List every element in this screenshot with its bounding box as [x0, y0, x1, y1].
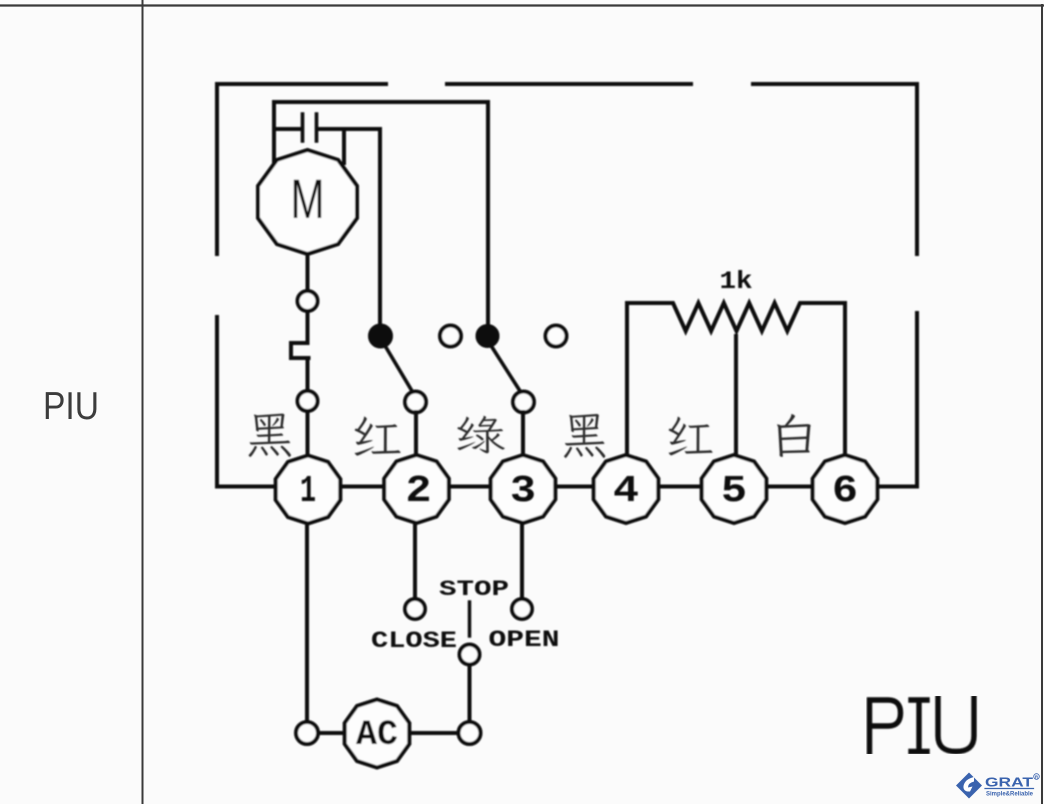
wire: terminal 3 down lead — [520, 523, 524, 598]
spare contact circle right — [546, 326, 567, 347]
terminal 5 — [702, 455, 767, 523]
svg-text:GRAT: GRAT — [985, 775, 1033, 790]
wire: motor bottom lead — [306, 254, 310, 291]
wire: motor loop top — [274, 102, 488, 326]
switch S2 lever — [490, 344, 520, 391]
wire: terminal 2 down lead — [413, 523, 417, 598]
dashed enclosure left edge — [215, 84, 219, 487]
selector lever (STOP position) — [468, 602, 471, 636]
GRAT logo diamond — [956, 773, 1039, 799]
motor M — [258, 150, 357, 254]
selector common circle E — [460, 645, 480, 665]
table right border — [1041, 5, 1043, 804]
svg-text:AC: AC — [356, 715, 398, 755]
resistor R1 1k with leads — [627, 303, 845, 331]
terminal circle A (motor side) — [298, 291, 318, 311]
registered mark — [1034, 774, 1040, 780]
switch S1 contact circle — [405, 392, 426, 413]
table top border — [0, 4, 1044, 6]
table column divider — [142, 0, 144, 804]
terminal 3 — [491, 455, 556, 523]
svg-text:OPEN: OPEN — [489, 627, 560, 653]
dashed enclosure top edge — [217, 82, 917, 86]
svg-text:STOP: STOP — [439, 577, 509, 602]
CLOSE contact circle — [405, 599, 425, 619]
model name PIU — [870, 698, 975, 752]
wire color label hong (red) — [355, 417, 401, 456]
wire color label hei (black) — [249, 414, 291, 457]
wire with thermal jog — [291, 311, 309, 391]
terminal 6 — [813, 455, 878, 523]
svg-text:Simple&Reliable: Simple&Reliable — [986, 792, 1034, 798]
wire: terminal 6 riser — [843, 303, 847, 456]
wire: circle B to terminal 1 — [306, 411, 310, 457]
AC source — [345, 700, 410, 768]
wire: S1 contact to terminal 2 — [414, 412, 418, 457]
wire: circle C to AC — [318, 731, 344, 735]
wire: AC to circle D — [411, 731, 458, 735]
wire color label bai (white) — [777, 414, 811, 457]
logo underline — [985, 788, 1034, 790]
wire: terminal 1 down lead — [305, 523, 309, 722]
terminal 2 — [384, 455, 449, 523]
terminal 1 — [276, 456, 341, 524]
svg-text:5: 5 — [721, 470, 747, 513]
wire color label hong2 (red) — [669, 417, 713, 456]
terminal strip bus wire — [217, 485, 917, 489]
wire color label lv (green) — [457, 416, 504, 454]
terminal 4 — [594, 455, 659, 523]
wire: circle D up — [468, 665, 472, 722]
terminal circle D — [459, 722, 481, 744]
svg-text:CLOSE: CLOSE — [371, 628, 457, 654]
wire: wiper to terminal 5 — [734, 336, 738, 457]
svg-text:2: 2 — [406, 470, 432, 513]
terminal circle B — [298, 391, 318, 411]
svg-text:PIU: PIU — [43, 385, 99, 428]
OPEN contact circle — [512, 599, 532, 619]
svg-text:6: 6 — [832, 470, 858, 513]
wire: loop left drop to motor — [272, 102, 276, 166]
svg-text:4: 4 — [613, 470, 639, 513]
switch S1 lever — [384, 344, 412, 391]
wire: terminal 4 riser — [625, 303, 629, 456]
wire: capacitor branch — [274, 129, 380, 326]
dashed enclosure right edge — [915, 84, 919, 487]
switch S2 contact circle — [513, 392, 534, 413]
svg-text:M: M — [291, 167, 325, 230]
wire: motor right lead — [342, 129, 346, 163]
switch S2 common dot — [478, 326, 498, 346]
switch S1 common dot — [370, 326, 391, 347]
svg-text:1k: 1k — [720, 267, 753, 296]
capacitor C1 plates — [303, 114, 317, 141]
wire color label hei2 (black) — [564, 414, 605, 458]
svg-text:3: 3 — [510, 470, 536, 513]
wire: S2 contact to terminal 3 — [521, 412, 525, 457]
terminal circle C — [296, 722, 318, 744]
spare contact circle left — [440, 326, 461, 347]
svg-text:1: 1 — [300, 470, 316, 513]
logo G swirl — [963, 777, 974, 792]
